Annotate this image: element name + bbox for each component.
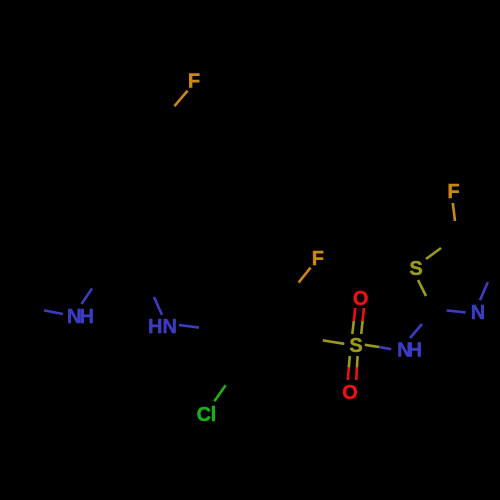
svg-text:F: F [188,71,200,93]
svg-text:S: S [349,335,362,357]
svg-text:F: F [447,181,459,203]
svg-text:O: O [342,382,358,404]
svg-text:NH: NH [67,306,94,328]
svg-text:HN: HN [148,316,177,338]
svg-text:S: S [409,258,422,280]
svg-text:N: N [471,302,485,324]
svg-text:Cl: Cl [197,404,217,426]
svg-text:F: F [312,248,324,270]
svg-text:NH: NH [397,339,422,361]
svg-text:O: O [353,288,369,310]
